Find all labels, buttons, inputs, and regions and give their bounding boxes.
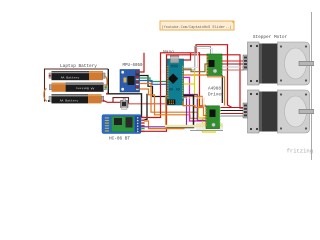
stepper driver A4988 #2 — [205, 106, 220, 129]
Arduino Nano U1 — [167, 56, 184, 105]
wire purple nano branch — [184, 97, 187, 127]
wire purple hc06 to nano — [141, 126, 187, 128]
wire blue MPU scl to Nano — [140, 81, 168, 85]
wire black battery gnd bus to HC06 — [108, 69, 141, 117]
wire orange nano to driver2 top — [183, 101, 207, 116]
wire red branch to driver1 vmot — [210, 55, 212, 57]
svg-text:Driver: Driver — [208, 93, 224, 98]
svg-text:A4988: A4988 — [208, 87, 221, 92]
wire black drop to HC06 pin2 — [145, 94, 148, 120]
MPU-6050 board U2 — [120, 70, 140, 93]
wire black MPU gnd — [140, 76, 168, 97]
wire red battery to switch — [104, 101, 122, 103]
battery cell 2 (flipped) — [49, 83, 106, 92]
wire white nano to driver2 — [184, 98, 207, 107]
svg-text:Stepper Motor: Stepper Motor — [253, 35, 288, 40]
wire yellow branch into driver2 — [203, 123, 207, 125]
cream ribbon under driver2 — [165, 123, 223, 131]
wire red upper arch over driver1 — [196, 45, 232, 108]
wire black driver1 to driver2 — [221, 76, 223, 104]
svg-text:fritzing: fritzing — [287, 148, 313, 155]
wire orange riser to nano — [140, 89, 198, 118]
fritzing watermark — [287, 148, 313, 155]
wire yellow riser to driver2 — [195, 72, 217, 133]
motor1 wires — [222, 61, 244, 70]
svg-text:HC-06 BT: HC-06 BT — [109, 137, 130, 142]
wire white nano to driver1 — [184, 49, 213, 68]
wire green MPU sda to Nano — [140, 78, 168, 82]
wire orange hc06 drop to bottom run — [144, 121, 166, 129]
Nano pin headers — [167, 66, 183, 99]
svg-text:Laptop Battery: Laptop Battery — [60, 64, 97, 69]
wire grey nano to driver1 — [184, 47, 211, 71]
wire orange MPU to driver2 — [140, 84, 207, 119]
wire purple long nano row — [184, 95, 207, 121]
slide switch S1 — [121, 99, 129, 110]
wire brown nano to driver1 — [184, 64, 207, 72]
battery holder frame — [45, 69, 109, 102]
svg-text:MPU-6050: MPU-6050 — [122, 64, 143, 68]
wire red switch to riser — [129, 103, 167, 105]
label HC-06 BT — [109, 137, 130, 142]
wire orange nano big loop — [166, 96, 185, 129]
label Stepper Motor — [253, 35, 288, 40]
wire orange driver1 to driver2 — [207, 77, 225, 106]
battery series link left — [44, 89, 47, 102]
wire red MPU vcc riser — [140, 53, 145, 72]
wire grey under driver2 — [190, 130, 223, 132]
battery terminal dots — [48, 75, 107, 102]
wire yellow nano down — [184, 83, 195, 85]
wire maroon switch loop — [113, 98, 129, 104]
label MPU-6050 — [122, 64, 143, 68]
battery cell 1 — [49, 71, 105, 80]
wire red stub to nano vin — [184, 53, 191, 60]
motor2 wires — [221, 108, 244, 117]
stepper motor M1 — [243, 42, 314, 85]
battery cell 3 — [49, 94, 104, 103]
HC-06 pin pads — [141, 117, 144, 132]
label Laptop Battery — [60, 64, 97, 69]
stepper driver A4988 #1 — [207, 54, 223, 76]
svg-text:(Youtube.Com/CaptainHcS Slider: (Youtube.Com/CaptainHcS Slider..) — [162, 25, 232, 30]
battery series link right — [104, 76, 107, 88]
wire black thick nano gnd down — [165, 96, 194, 128]
svg-text:AA Battery: AA Battery — [61, 75, 80, 79]
svg-text:AA Battery: AA Battery — [76, 86, 95, 90]
wire orange nano to driver1 — [184, 68, 208, 75]
svg-text:AA Battery: AA Battery — [60, 99, 79, 103]
wire magenta nano to driver2 — [184, 78, 207, 122]
wire red main supply riser — [141, 55, 244, 132]
battery negative dot — [106, 93, 108, 95]
label A4988 Driver — [208, 87, 224, 98]
wire red hc06 riser to driver2 vmot — [141, 53, 206, 118]
stepper motor M2 — [243, 90, 314, 133]
window edge line right — [311, 12, 313, 160]
label Nano — [163, 49, 174, 55]
wire orange nano to driver2 top — [184, 96, 207, 105]
sticky note — [160, 21, 234, 30]
HC-06 bluetooth module — [102, 115, 141, 134]
